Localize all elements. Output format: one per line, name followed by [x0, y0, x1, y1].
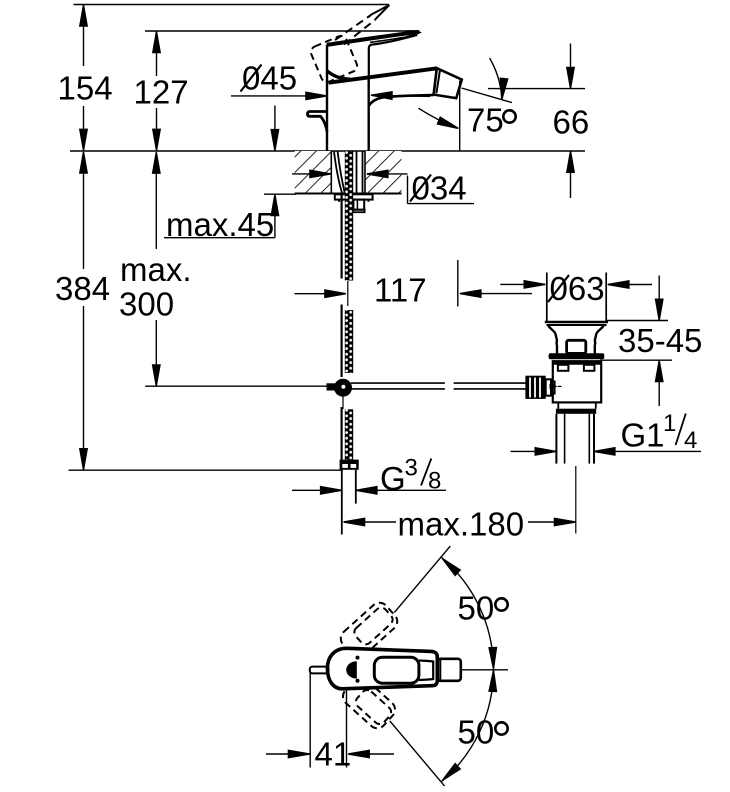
dimension Ø63: [500, 270, 652, 307]
top view pop-up rod: [310, 667, 329, 674]
hose break centerline: [347, 281, 349, 306]
svg-text:384: 384: [55, 270, 110, 307]
dimension G3/8: [292, 455, 446, 498]
svg-text:3: 3: [405, 455, 418, 482]
straight hose lines in hole: [356, 152, 358, 194]
deck top line: [70, 150, 585, 152]
dimension max.180: [344, 506, 576, 543]
deck hatched section right: [365, 151, 402, 194]
hose centerline below nut: [342, 396, 344, 409]
drain cap bottom: [545, 321, 608, 324]
svg-text:35-45: 35-45: [618, 322, 702, 359]
lever back / body left edge: [326, 45, 328, 151]
dimension 66: [553, 44, 590, 199]
svg-text:75: 75: [467, 102, 504, 139]
dimension max.45: [164, 106, 296, 244]
lever tip: [405, 30, 422, 36]
svg-text:117: 117: [374, 272, 427, 309]
body right edge: [368, 78, 370, 152]
aerator end piece: [434, 68, 462, 98]
braided hose segment 3: [345, 409, 353, 459]
spout outlet level line: [488, 88, 585, 90]
svg-text:max.180: max.180: [398, 506, 525, 543]
lever bottom chin: [327, 71, 350, 80]
hose union nut: [327, 383, 337, 390]
deck bottom line: [295, 193, 402, 195]
lever top inner chamfer line: [370, 35, 417, 43]
svg-text:50: 50: [458, 714, 495, 751]
dimension 117: [295, 272, 533, 309]
top view body: [327, 648, 437, 689]
washer under deck: [335, 194, 373, 199]
aerator joint line: [436, 70, 440, 93]
deck hatched section left: [295, 151, 332, 194]
dimension Ø34: [292, 170, 474, 207]
spout underside: [369, 95, 434, 106]
drain neck right: [595, 326, 604, 354]
bleed screw pointer: [550, 384, 559, 389]
dimension 35-45: [618, 276, 702, 407]
dimension max.300: [119, 152, 192, 386]
dashed lever bar tip: [371, 5, 390, 19]
pop-up rod to drain: [351, 382, 445, 384]
reference line top (lever raised tip level): [74, 4, 390, 6]
svg-text:41: 41: [315, 736, 352, 773]
dimension 127: [134, 31, 189, 150]
35-45 top reference line: [607, 320, 669, 322]
swivel boundary line upper: [394, 546, 450, 613]
mounting hex nut: [353, 200, 364, 210]
svg-text:50: 50: [458, 590, 495, 627]
drain cap sides / Ø63 extension lines: [546, 273, 548, 322]
top view lever plate: [374, 657, 419, 683]
dashed lever raised outline: [309, 34, 359, 84]
supply hose curve in hole: [334, 152, 342, 194]
spout top edge: [329, 68, 438, 82]
G3/8 connector nut: [340, 460, 359, 470]
top view aerator stub: [437, 659, 461, 681]
svg-text:max.45: max.45: [166, 206, 274, 243]
dimension G1 1/4: [511, 410, 702, 455]
dashed lever raised bar: [335, 15, 371, 40]
50 degree arc lower: [441, 670, 493, 782]
drain flange: [549, 353, 605, 359]
faucet side view: lever top edge: [327, 32, 419, 45]
75 degree arc lower: [418, 108, 455, 127]
hose end level line: [69, 469, 342, 471]
svg-text:127: 127: [134, 74, 189, 111]
reference line lever top level: [145, 30, 420, 32]
svg-text:300: 300: [119, 286, 174, 323]
svg-text:154: 154: [58, 70, 113, 107]
lever underside and front face: [369, 35, 417, 77]
svg-text:66: 66: [553, 104, 590, 141]
dimension 41: [266, 673, 394, 773]
drain centerline: [575, 466, 577, 534]
75 degree arc upper: [490, 58, 502, 97]
braided hose segment 1: [345, 194, 353, 281]
drain valve body: [553, 361, 601, 402]
svg-text:1: 1: [663, 410, 676, 437]
deck hole edges: [330, 151, 332, 194]
index dots: [356, 656, 360, 660]
svg-text:G1: G1: [621, 417, 665, 454]
top view centerline: [461, 669, 508, 671]
svg-text:max.: max.: [120, 251, 192, 288]
lever tip contours: [419, 661, 433, 681]
G3/8 tube: [341, 470, 343, 535]
threaded stud in deck: [345, 151, 353, 194]
drain neck left: [548, 326, 557, 354]
dimension 154: [58, 5, 113, 151]
dashed lever position lower: [339, 674, 398, 732]
svg-text:4: 4: [684, 427, 697, 454]
svg-text:8: 8: [428, 468, 441, 495]
drain boss: [567, 340, 586, 353]
temperature stop lever on body: [308, 112, 328, 132]
50 degree arc upper: [441, 557, 493, 669]
drain knurled nut: [525, 376, 545, 399]
dimension Ø45: [231, 60, 430, 100]
cartridge mark: [346, 661, 357, 678]
35-45 bottom reference line: [600, 359, 672, 361]
svg-text:G: G: [380, 460, 406, 497]
drain rod coupling: [546, 379, 551, 395]
pop-up rod level line: [145, 385, 335, 387]
drain tailpipe: [557, 402, 559, 408]
braided hose segment 2: [345, 310, 353, 373]
dimension 384: [55, 152, 110, 470]
dashed lever position upper: [337, 599, 401, 661]
aerator plumb line extension: [457, 260, 459, 307]
75 degree vertical reference line: [459, 81, 461, 152]
swivel boundary line lower: [390, 721, 445, 786]
spout axis line: [462, 88, 513, 103]
